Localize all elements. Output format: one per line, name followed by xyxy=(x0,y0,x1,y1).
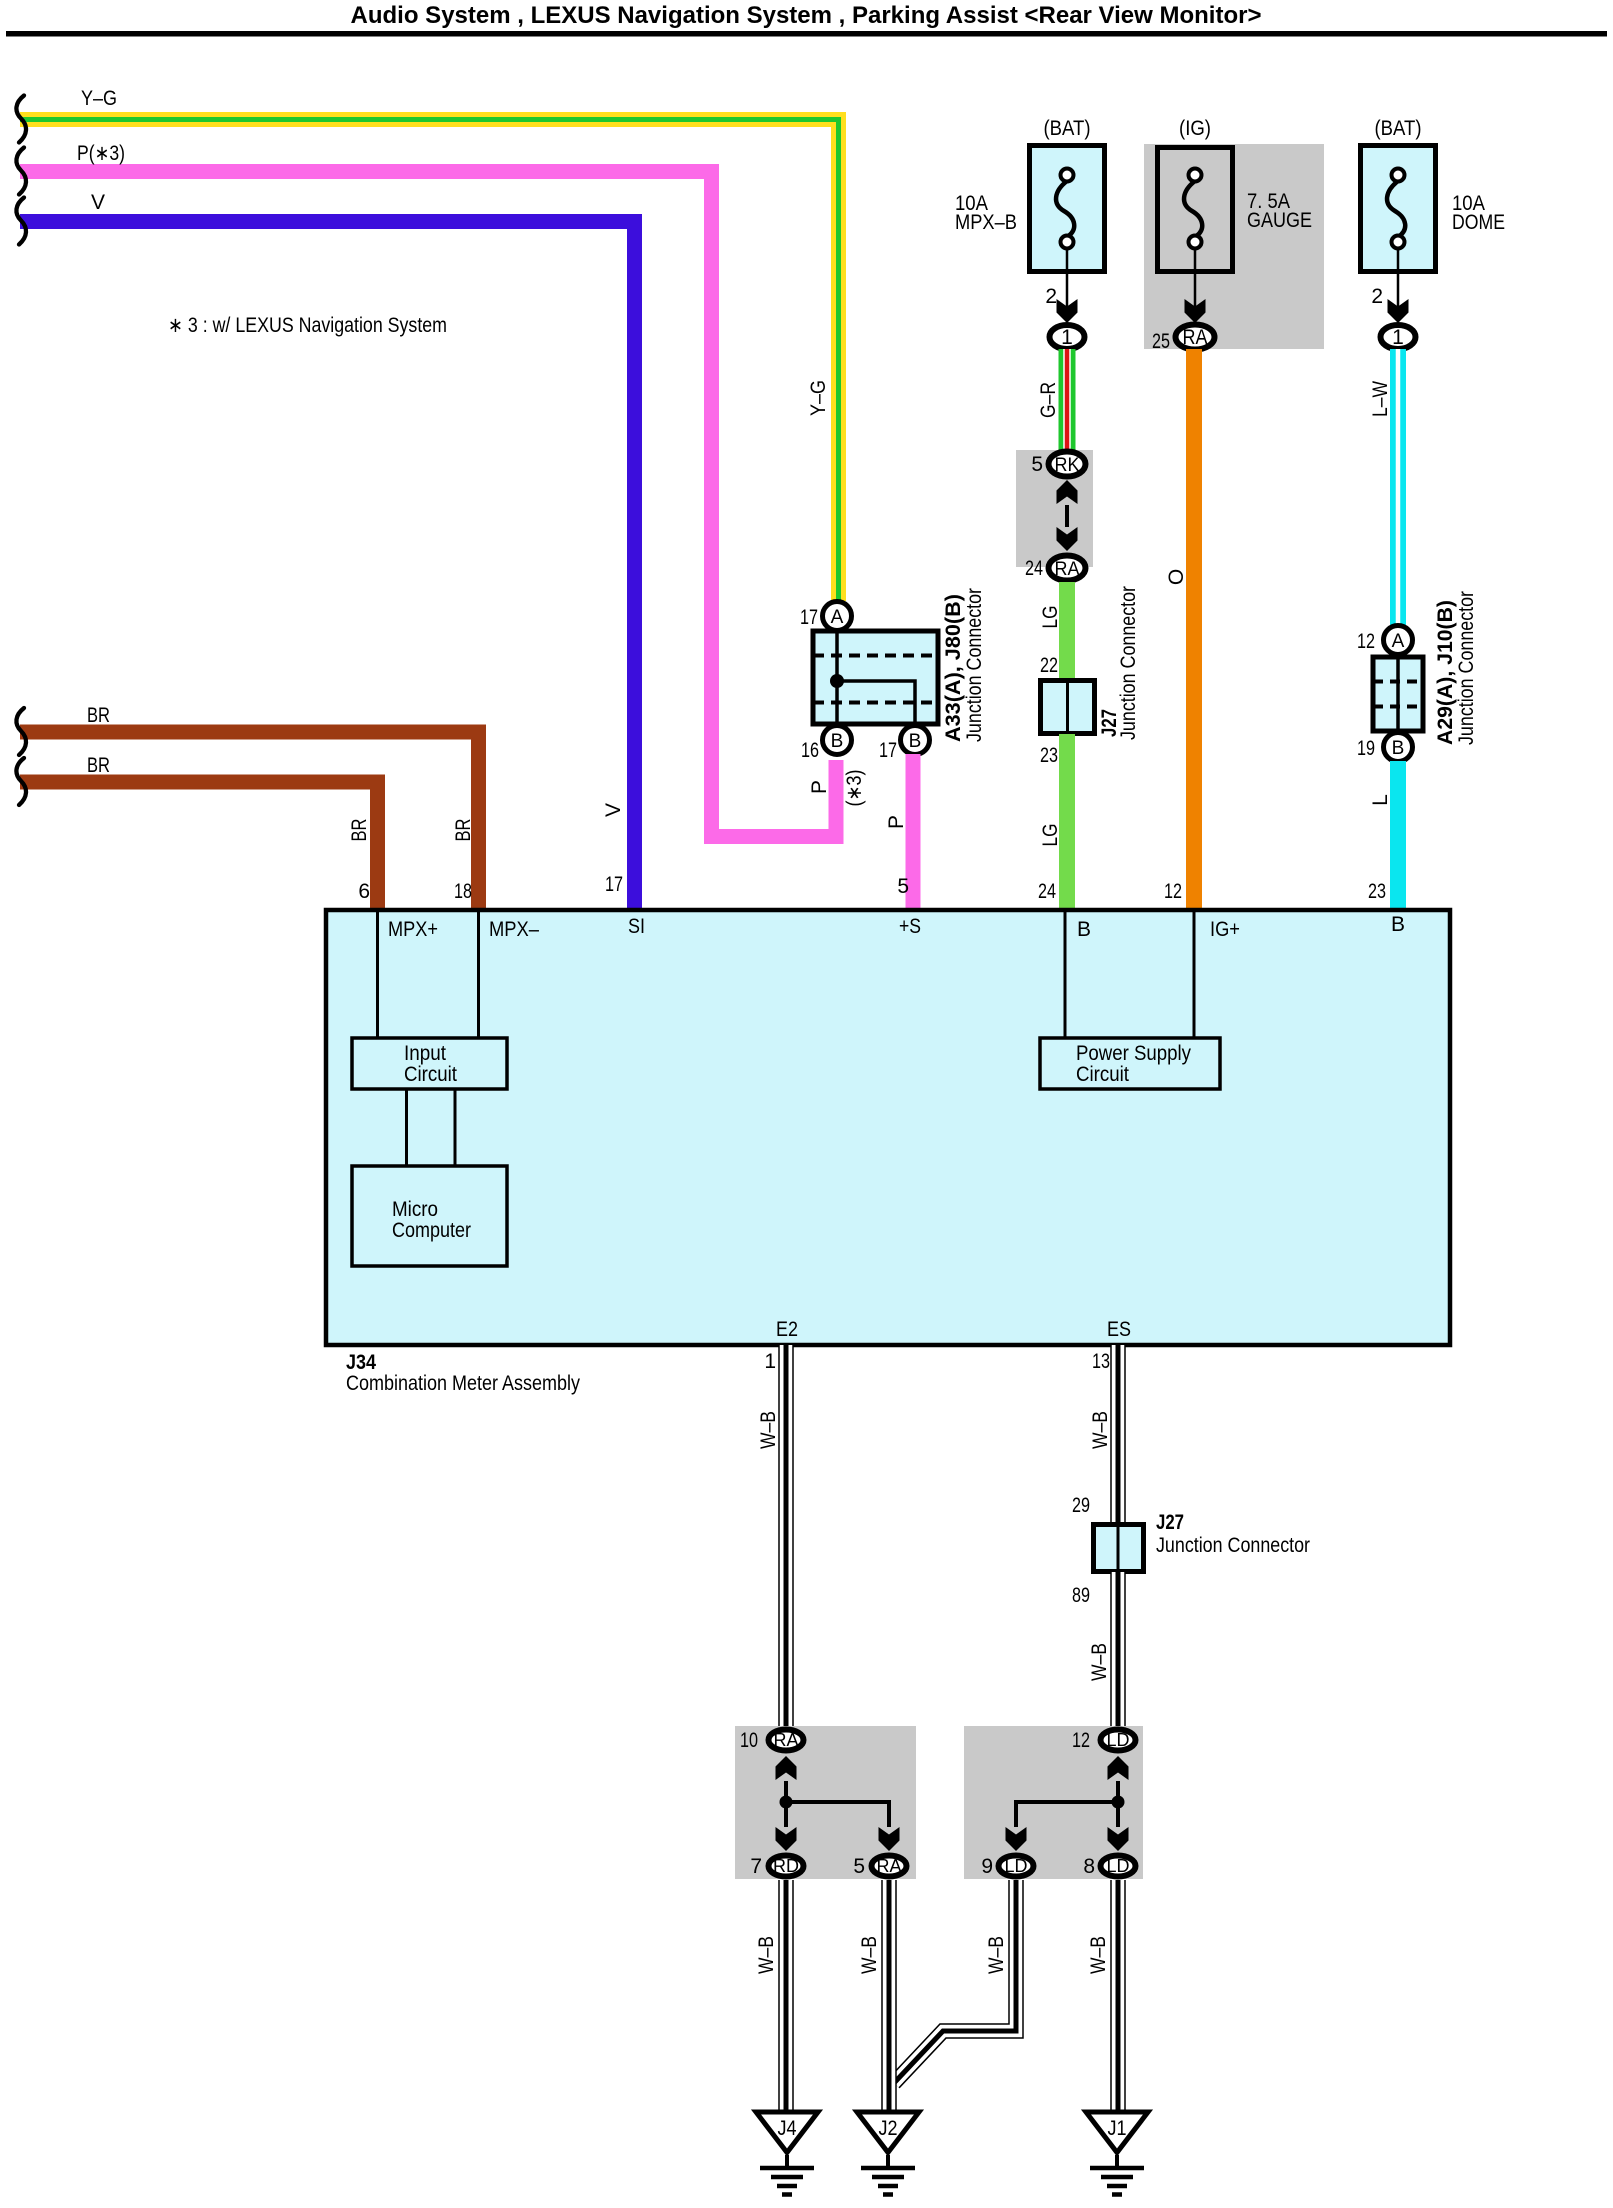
svg-text:18: 18 xyxy=(454,880,472,903)
svg-text:(IG): (IG) xyxy=(1179,117,1211,140)
svg-text:P: P xyxy=(885,815,908,829)
svg-text:5: 5 xyxy=(853,1855,865,1878)
svg-text:Power Supply: Power Supply xyxy=(1076,1042,1191,1065)
internal wire MPX- xyxy=(477,910,480,1038)
wire W-B RA5 to J2 xyxy=(881,1880,897,2110)
svg-text:Combination Meter Assembly: Combination Meter Assembly xyxy=(346,1372,580,1395)
brace P xyxy=(16,148,26,195)
svg-text:A29(A), J10(B): A29(A), J10(B) xyxy=(1434,600,1457,745)
svg-text:Junction Connector: Junction Connector xyxy=(1156,1534,1310,1557)
svg-text:E2: E2 xyxy=(776,1318,798,1341)
svg-text:(BAT): (BAT) xyxy=(1044,117,1091,140)
wire down to RD xyxy=(784,1802,788,1827)
connector RK xyxy=(1049,452,1086,477)
svg-text:BR: BR xyxy=(348,819,371,842)
svg-text:B: B xyxy=(1391,913,1405,936)
brace BR lower xyxy=(16,758,26,805)
wire W-B E2 down xyxy=(778,1345,794,1726)
connector LD 12 xyxy=(1101,1730,1136,1751)
title rule xyxy=(6,31,1607,37)
svg-text:ES: ES xyxy=(1107,1318,1131,1341)
svg-text:B: B xyxy=(831,731,844,752)
pin A circle (A33) xyxy=(823,602,852,631)
svg-text:Junction Connector: Junction Connector xyxy=(963,588,986,742)
junction dot xyxy=(780,1796,793,1809)
svg-text:B: B xyxy=(1392,738,1405,759)
svg-text:W–B: W–B xyxy=(1089,1411,1112,1449)
svg-text:24: 24 xyxy=(1025,557,1043,580)
wire L-W xyxy=(1390,349,1406,628)
internal wire MPX+ xyxy=(376,910,379,1038)
svg-text:16: 16 xyxy=(801,739,819,762)
svg-text:(BAT): (BAT) xyxy=(1375,117,1422,140)
svg-text:12: 12 xyxy=(1164,880,1182,903)
wire BR (upper) xyxy=(20,732,479,910)
brace V xyxy=(16,198,26,245)
wire O (orange) xyxy=(1186,349,1202,910)
svg-text:17: 17 xyxy=(605,873,623,896)
arrow into RA25 xyxy=(1185,299,1206,323)
svg-text:J34: J34 xyxy=(346,1351,376,1374)
pin B circle (A29) xyxy=(1384,733,1413,762)
arrow down to RA5 xyxy=(879,1827,900,1851)
svg-text:1: 1 xyxy=(764,1350,776,1373)
svg-text:MPX+: MPX+ xyxy=(388,918,438,941)
svg-text:P: P xyxy=(808,780,831,794)
svg-text:12: 12 xyxy=(1357,630,1375,653)
svg-text:G–R: G–R xyxy=(1037,382,1060,418)
junction connector A33(A) J80(B) xyxy=(813,631,938,724)
svg-text:LG: LG xyxy=(1039,824,1062,847)
connector RA 25 xyxy=(1176,325,1215,350)
svg-text:2: 2 xyxy=(1371,285,1383,308)
junction connector A29(A) J10(B) xyxy=(1373,657,1423,731)
wire link down xyxy=(784,1781,788,1802)
svg-text:J2: J2 xyxy=(879,2117,898,2140)
svg-text:SI: SI xyxy=(628,915,645,938)
svg-text:RA: RA xyxy=(1183,326,1208,349)
connector RA 10 xyxy=(769,1730,804,1751)
wire P(*3) xyxy=(20,172,836,837)
svg-text:Y–G: Y–G xyxy=(807,380,830,416)
wire across xyxy=(786,1802,889,1827)
wire down to LD8 xyxy=(1116,1802,1120,1827)
svg-text:W–B: W–B xyxy=(755,1936,778,1974)
gray panel RK/RA xyxy=(1016,450,1093,567)
svg-text:V: V xyxy=(602,803,625,817)
svg-text:GAUGE: GAUGE xyxy=(1247,209,1312,232)
arrow into connector 1 xyxy=(1388,299,1409,323)
svg-text:9: 9 xyxy=(981,1855,993,1878)
brace Y-G xyxy=(16,96,26,143)
svg-text:W–B: W–B xyxy=(858,1936,881,1974)
ground J4 xyxy=(756,2112,818,2195)
svg-text:O: O xyxy=(1165,569,1188,585)
arrow up below RA10 xyxy=(776,1756,797,1780)
junction connector J27 lower xyxy=(1094,1524,1144,1572)
svg-text:Junction Connector: Junction Connector xyxy=(1117,586,1140,740)
svg-text:L: L xyxy=(1369,794,1392,806)
wire W-B LD8 to J1 xyxy=(1110,1880,1126,2110)
svg-text:J1: J1 xyxy=(1108,2117,1127,2140)
connector LD 8 xyxy=(1101,1856,1136,1877)
svg-text:LD: LD xyxy=(1107,1856,1130,1876)
svg-text:24: 24 xyxy=(1038,880,1056,903)
svg-text:6: 6 xyxy=(358,880,370,903)
svg-text:Micro: Micro xyxy=(392,1198,438,1221)
svg-text:25: 25 xyxy=(1152,330,1170,353)
svg-text:19: 19 xyxy=(1357,737,1375,760)
wire V xyxy=(20,222,635,911)
wire fuse2 to RA xyxy=(1194,249,1197,320)
wire W-B RD7 to J4 xyxy=(778,1880,794,2110)
svg-text:Y–G: Y–G xyxy=(81,87,117,110)
svg-text:LG: LG xyxy=(1039,606,1062,629)
svg-text:A: A xyxy=(1392,631,1405,652)
svg-text:W–B: W–B xyxy=(1088,1643,1111,1681)
arrow down to LD9 xyxy=(1006,1827,1027,1851)
arrow down to RD xyxy=(776,1827,797,1851)
link Input to Micro xyxy=(405,1089,408,1166)
connector RA 5 xyxy=(872,1856,907,1877)
svg-text:Circuit: Circuit xyxy=(404,1063,457,1086)
svg-text:1: 1 xyxy=(1061,326,1073,349)
J34 box xyxy=(326,910,1450,1345)
arrow down to RA xyxy=(1057,527,1078,551)
wire W-B below J27 xyxy=(1110,1572,1126,1726)
svg-text:W–B: W–B xyxy=(1087,1936,1110,1974)
svg-text:2: 2 xyxy=(1045,285,1057,308)
svg-text:8: 8 xyxy=(1083,1855,1095,1878)
fuse 10A DOME xyxy=(1361,146,1436,272)
connector RD 7 xyxy=(769,1856,804,1877)
wire G-R xyxy=(1059,349,1076,452)
svg-text:B: B xyxy=(1077,918,1091,941)
fuse 7.5A GAUGE xyxy=(1158,148,1233,272)
svg-text:MPX–B: MPX–B xyxy=(955,211,1017,234)
wire fuse1 to pin 1 xyxy=(1066,249,1069,320)
arrow up below LD12 xyxy=(1108,1756,1129,1780)
gray panel GAUGE xyxy=(1144,144,1324,349)
svg-text:∗ 3 : w/ LEXUS Navigation Syst: ∗ 3 : w/ LEXUS Navigation System xyxy=(168,314,447,337)
svg-text:W–B: W–B xyxy=(985,1936,1008,1974)
svg-text:BR: BR xyxy=(452,819,475,842)
svg-text:23: 23 xyxy=(1040,744,1058,767)
svg-text:J4: J4 xyxy=(778,2117,797,2140)
wire P from B17 to +S xyxy=(906,754,921,910)
svg-text:L–W: L–W xyxy=(1369,381,1392,417)
svg-text:RA: RA xyxy=(774,1730,799,1750)
Micro Computer box xyxy=(352,1166,507,1266)
svg-text:B: B xyxy=(909,731,922,752)
gray panel right xyxy=(964,1726,1143,1879)
wire LG upper xyxy=(1059,582,1075,682)
svg-text:17: 17 xyxy=(800,606,818,629)
svg-text:RD: RD xyxy=(773,1856,799,1876)
svg-text:BR: BR xyxy=(87,704,110,727)
svg-text:RA: RA xyxy=(877,1856,902,1876)
wire RK-RA link xyxy=(1065,505,1069,527)
fuse 10A MPX-B xyxy=(1030,146,1105,272)
wire fuse3 to pin 1 xyxy=(1397,249,1400,320)
svg-text:J27: J27 xyxy=(1156,1511,1184,1534)
arrow into connector 1 xyxy=(1057,299,1078,323)
wire W-B ES down xyxy=(1110,1345,1126,1524)
svg-text:RA: RA xyxy=(1055,559,1080,580)
svg-text:(∗3): (∗3) xyxy=(843,770,866,807)
junction connector J27 upper xyxy=(1041,680,1095,734)
arrow down to LD8 xyxy=(1108,1827,1129,1851)
svg-text:BR: BR xyxy=(87,754,110,777)
svg-text:5: 5 xyxy=(1031,453,1043,476)
svg-text:7: 7 xyxy=(750,1855,762,1878)
svg-text:IG+: IG+ xyxy=(1210,918,1240,941)
wire across xyxy=(1016,1802,1118,1827)
svg-text:1: 1 xyxy=(1392,326,1404,349)
svg-text:23: 23 xyxy=(1368,880,1386,903)
Input Circuit box xyxy=(352,1038,507,1089)
wire Y-G xyxy=(20,120,839,602)
wire L (solid cyan) xyxy=(1390,761,1406,910)
svg-text:W–B: W–B xyxy=(757,1411,780,1449)
ground J1 xyxy=(1086,2112,1148,2195)
svg-text:DOME: DOME xyxy=(1452,211,1505,234)
connector pin 1 (MPX-B) xyxy=(1050,325,1085,349)
svg-text:V: V xyxy=(91,191,105,214)
svg-text:+S: +S xyxy=(899,915,921,938)
gray panel left xyxy=(735,1726,916,1879)
ground J2 xyxy=(857,2112,919,2195)
svg-text:A33(A), J80(B): A33(A), J80(B) xyxy=(942,594,965,742)
arrow up to RK xyxy=(1057,480,1078,504)
svg-text:Circuit: Circuit xyxy=(1076,1063,1129,1086)
connector RA 24 xyxy=(1049,556,1086,581)
svg-text:Computer: Computer xyxy=(392,1219,471,1242)
svg-text:LD: LD xyxy=(1107,1730,1130,1750)
svg-text:Junction Connector: Junction Connector xyxy=(1455,591,1478,745)
wire BR (lower) xyxy=(20,782,378,910)
svg-text:17: 17 xyxy=(879,739,897,762)
svg-text:MPX–: MPX– xyxy=(489,918,539,941)
wire W-B LD9 with jog to J2 xyxy=(894,1880,1016,2083)
internal wire B xyxy=(1064,910,1067,1038)
svg-text:LD: LD xyxy=(1005,1856,1028,1876)
pin B circle left (A33) xyxy=(823,726,852,755)
connector LD 9 xyxy=(999,1856,1034,1877)
Power Supply Circuit box xyxy=(1040,1038,1220,1089)
pin A circle (A29) xyxy=(1384,626,1413,655)
svg-text:Audio System , LEXUS Navigatio: Audio System , LEXUS Navigation System ,… xyxy=(351,2,1262,29)
svg-text:13: 13 xyxy=(1092,1350,1110,1373)
svg-text:P(∗3): P(∗3) xyxy=(77,142,125,165)
wire LG lower xyxy=(1059,734,1075,910)
svg-text:89: 89 xyxy=(1072,1584,1090,1607)
svg-text:A: A xyxy=(831,607,844,628)
wire link down xyxy=(1116,1781,1120,1802)
svg-text:12: 12 xyxy=(1072,1729,1090,1752)
svg-text:22: 22 xyxy=(1040,654,1058,677)
svg-text:10: 10 xyxy=(740,1729,758,1752)
svg-text:RK: RK xyxy=(1055,455,1080,476)
svg-text:5: 5 xyxy=(897,875,909,898)
internal wire IG+ xyxy=(1193,910,1196,1038)
connector pin 1 (DOME) xyxy=(1381,325,1416,349)
svg-text:29: 29 xyxy=(1072,1494,1090,1517)
brace BR upper xyxy=(16,708,26,755)
pin B circle right (A33) xyxy=(901,726,930,755)
junction dot xyxy=(1112,1796,1125,1809)
svg-text:Input: Input xyxy=(404,1042,446,1065)
